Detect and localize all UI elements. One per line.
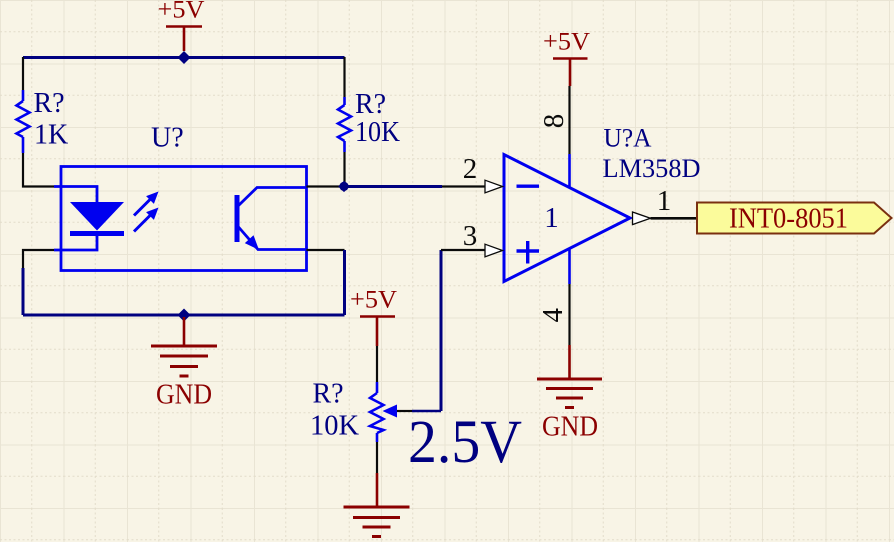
svg-text:+5V: +5V (158, 0, 205, 24)
ground (pot) (344, 473, 410, 537)
pin 3 lead (441, 249, 485, 251)
wire: LED cathode to ground rail (23, 250, 54, 268)
svg-text:U?: U? (151, 122, 184, 153)
LED triangle (70, 202, 124, 231)
LED cathode pin (54, 236, 97, 250)
svg-text:10K: 10K (310, 411, 359, 442)
optocoupler U? (54, 122, 307, 270)
svg-text:1: 1 (657, 185, 672, 217)
wire: top horizontal +5V rail (23, 56, 345, 59)
wire: junction to op-amp pin 2 (345, 185, 443, 188)
resistor R2 (338, 89, 400, 152)
wire: R1 bottom to opto LED anode (23, 153, 54, 187)
svg-text:+5V: +5V (350, 287, 397, 314)
svg-text:GND: GND (542, 411, 598, 443)
input arrow pin 2 (485, 180, 503, 193)
wire: R2 top lead (343, 57, 345, 97)
LED light arrow 1 (134, 199, 151, 216)
svg-text:INT0-8051: INT0-8051 (729, 202, 848, 234)
pin 2 lead (442, 185, 485, 187)
svg-text:R?: R? (313, 379, 344, 410)
phototransistor base bar (235, 195, 240, 242)
phototransistor collector (239, 188, 307, 206)
wire: R2 bottom to junction (343, 152, 345, 183)
svg-text:1K: 1K (34, 120, 68, 151)
net flag INT0-8051 (697, 202, 892, 234)
plus input symbol (517, 241, 540, 264)
power +5V middle (pot) (350, 287, 397, 347)
svg-text:GND: GND (156, 379, 212, 411)
input arrow pin 3 (485, 244, 503, 257)
wire: collector to junction (307, 185, 342, 187)
junction top rail (178, 51, 191, 64)
svg-text:8: 8 (538, 114, 570, 129)
svg-text:2: 2 (463, 153, 478, 185)
svg-text:U?A: U?A (604, 124, 652, 153)
svg-text:10K: 10K (355, 117, 400, 148)
output arrow pin 1 (633, 212, 651, 225)
junction at inverting input node (338, 181, 350, 192)
potentiometer R? 10K (310, 379, 397, 443)
power +5V op-amp (543, 29, 590, 87)
svg-text:4: 4 (537, 307, 569, 322)
svg-text:R?: R? (34, 88, 65, 119)
wire: pot bottom to ground (376, 442, 378, 473)
wire: emitter down to ground rail (307, 249, 345, 251)
pin 8 lead (568, 86, 570, 154)
svg-text:2.5V: 2.5V (408, 409, 522, 476)
svg-text:R?: R? (355, 89, 386, 120)
resistor R1 (17, 88, 69, 153)
power +5V top-left (158, 0, 205, 51)
minus input symbol (517, 184, 540, 187)
wire: left drop to R1 (22, 57, 24, 90)
LED light arrow 2 (134, 215, 151, 232)
wire: +5V to potentiometer (376, 346, 378, 382)
op-amp U?A LM358D (463, 86, 701, 345)
svg-text:1: 1 (544, 202, 559, 234)
wire: wiper to op-amp pin 3 (397, 410, 412, 412)
ground GND (op-amp) (537, 345, 602, 443)
LED cathode bar (70, 231, 124, 236)
LED anode pin (54, 187, 97, 203)
phototransistor emitter (239, 227, 307, 250)
pin 4 lead (568, 249, 571, 285)
opto body box (61, 167, 307, 271)
emitter arrowhead (245, 235, 259, 250)
svg-text:LM358D: LM358D (603, 154, 701, 183)
junction bottom rail (178, 309, 191, 322)
svg-text:+5V: +5V (543, 29, 590, 56)
wiper arrowhead (383, 405, 398, 418)
ground GND (left) (151, 317, 217, 411)
svg-text:3: 3 (463, 220, 478, 252)
wire: bottom ground rail (23, 314, 345, 317)
op-amp body triangle (504, 155, 630, 282)
wire: op-amp output to flag (651, 217, 698, 220)
